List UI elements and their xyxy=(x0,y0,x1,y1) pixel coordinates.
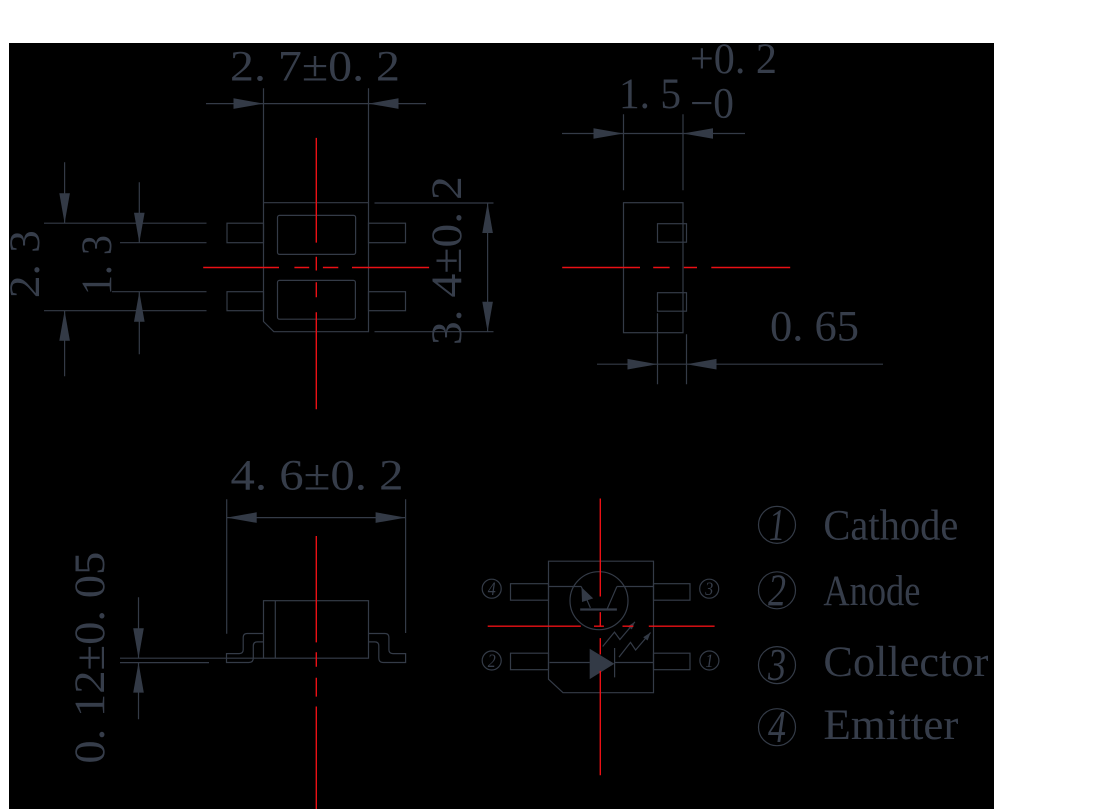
svg-text:4. 6±0. 2: 4. 6±0. 2 xyxy=(231,451,404,499)
svg-text:2. 7±0. 2: 2. 7±0. 2 xyxy=(230,43,400,91)
svg-text:0. 65: 0. 65 xyxy=(770,302,859,350)
svg-text:0. 12±0. 05: 0. 12±0. 05 xyxy=(66,551,114,763)
svg-text:1: 1 xyxy=(705,651,713,672)
svg-text:2: 2 xyxy=(768,565,786,615)
svg-text:3: 3 xyxy=(767,640,786,690)
svg-text:+0. 2: +0. 2 xyxy=(690,43,777,83)
svg-text:−0: −0 xyxy=(690,79,734,127)
svg-text:4: 4 xyxy=(768,702,786,752)
svg-text:Cathode: Cathode xyxy=(823,501,958,549)
svg-text:3: 3 xyxy=(704,579,713,600)
svg-text:Emitter: Emitter xyxy=(823,701,959,749)
svg-text:2. 3: 2. 3 xyxy=(9,230,49,298)
svg-text:1. 5: 1. 5 xyxy=(619,70,681,118)
svg-text:3. 4±0. 2: 3. 4±0. 2 xyxy=(423,176,471,345)
svg-text:1: 1 xyxy=(769,500,785,550)
svg-text:Anode: Anode xyxy=(823,567,920,615)
svg-text:2: 2 xyxy=(488,651,496,672)
svg-text:4: 4 xyxy=(488,579,496,600)
svg-text:1. 3: 1. 3 xyxy=(73,235,121,295)
svg-text:Collector: Collector xyxy=(823,638,989,686)
